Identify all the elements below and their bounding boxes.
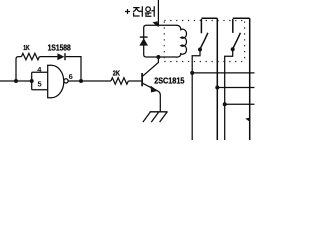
node bus1 junction: [190, 71, 194, 75]
transistor Q1 collector: [143, 57, 159, 76]
node contact 1 pivot: [198, 48, 202, 52]
wire feedback left vertical: [16, 57, 21, 81]
relay coil L1: [176, 25, 186, 57]
label 전원 glyph 원: [145, 6, 154, 16]
node feedback tap junction: [14, 79, 18, 83]
wire input from left edge: [0, 80, 32, 82]
diode D1 1S1588: [57, 53, 64, 60]
svg-text:6: 6: [69, 72, 73, 81]
power arrow at junction: [152, 21, 158, 27]
relay coil loop (top and bottom wires, left branch): [144, 25, 177, 57]
node collector junction: [156, 55, 160, 59]
ground: [150, 111, 168, 113]
node contact 2 pivot: [231, 47, 235, 51]
label + 전원 (power) plus sign: [125, 9, 130, 14]
svg-text:1K: 1K: [23, 43, 30, 52]
wire input branch vertical: [31, 72, 33, 89]
svg-text:2SC1815: 2SC1815: [154, 75, 184, 85]
wire contact 1 pole drop: [192, 50, 200, 141]
relay contact 1 fixed terminal (inverted U): [201, 18, 217, 140]
transistor Q1 base bar: [141, 73, 143, 86]
node bus3 junction: [223, 102, 227, 106]
node bus2 junction: [215, 86, 219, 90]
relay dashed box: [164, 21, 244, 62]
wire bus3: [225, 103, 255, 105]
relay contact 2 lever: [233, 33, 241, 49]
wire bus2: [217, 87, 254, 89]
node branch junction: [30, 79, 34, 83]
wire bus1: [192, 72, 254, 74]
resistor R1 1K: [21, 53, 39, 59]
wire resistor to diode: [39, 56, 57, 58]
wire diode to feedback right corner: [66, 57, 81, 81]
node feedback output junction: [79, 79, 83, 83]
transistor Q1 emitter arrow: [151, 86, 158, 93]
svg-text:1S1588: 1S1588: [48, 43, 72, 52]
wire pin 4 input: [32, 71, 48, 73]
transistor Q1 emitter: [143, 83, 161, 111]
arrow tick on contact2 drop wire: [245, 118, 250, 122]
relay contact 1 lever: [200, 33, 208, 49]
nand gate U1 body: [48, 65, 64, 97]
wire gate output: [68, 80, 111, 82]
svg-text:5: 5: [38, 80, 42, 89]
wire contact 2 pole drop: [225, 49, 233, 140]
wire power drop from top edge: [157, 0, 159, 25]
relay contact 2 fixed terminal (inverted U): [233, 18, 250, 140]
wire pin 5 input: [32, 89, 48, 91]
label 전원 glyph 전: [133, 6, 142, 16]
diode D2 flyback: [139, 38, 148, 46]
wire resistor to base: [128, 80, 141, 82]
resistor R2 2K: [111, 78, 128, 84]
nand gate U1 output bubble: [64, 79, 68, 83]
svg-text:2K: 2K: [113, 69, 121, 78]
